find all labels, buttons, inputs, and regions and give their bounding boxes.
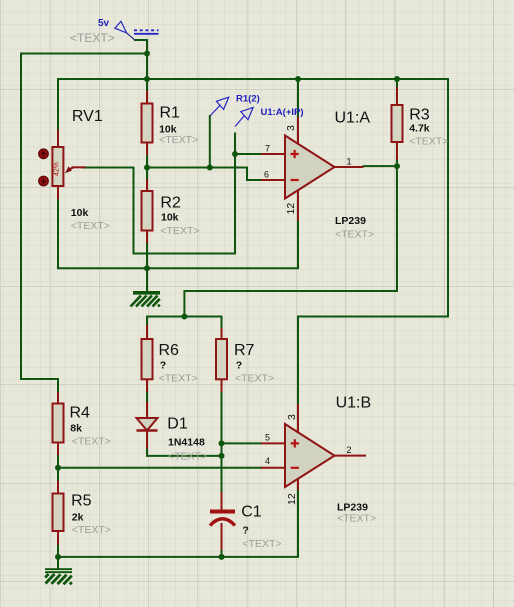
capacitor C1 [210, 492, 282, 550]
node junction: V+ rail / U1:A pin3 [295, 76, 301, 82]
ground (lower, below R5) [45, 568, 72, 584]
svg-text:3: 3 [286, 414, 298, 420]
svg-text:R1(2): R1(2) [236, 94, 260, 105]
svg-text:R7: R7 [234, 342, 255, 359]
svg-text:R4: R4 [70, 405, 91, 422]
svg-text:?: ? [242, 525, 248, 537]
wire: R3 node down-left to R6/R7 bus [184, 166, 397, 316]
svg-text:<TEXT>: <TEXT> [242, 538, 281, 550]
wire: R1(2) stub [209, 116, 211, 168]
resistor R2 [142, 179, 200, 243]
svg-text:7: 7 [265, 144, 270, 154]
wire: upper ground bus [58, 200, 298, 269]
svg-text:8k: 8k [70, 423, 82, 435]
svg-text:4.7k: 4.7k [409, 123, 430, 135]
svg-text:<TEXT>: <TEXT> [235, 373, 274, 385]
svg-text:U1:A: U1:A [335, 110, 371, 127]
node junction: R6-R7 bus feed [181, 314, 187, 320]
svg-text:<TEXT>: <TEXT> [168, 451, 207, 463]
svg-text:5: 5 [265, 433, 270, 443]
wire: power terminal stem [135, 40, 147, 91]
svg-text:<TEXT>: <TEXT> [159, 134, 198, 146]
wire: pin7 link [235, 153, 261, 155]
svg-text:<TEXT>: <TEXT> [72, 436, 111, 448]
wire: R1/R2 node to pin6 [147, 168, 261, 181]
resistor R5 [53, 481, 111, 545]
node junction: power stem / top rail [144, 51, 150, 57]
wire: R2 bottom link [146, 243, 148, 268]
svg-text:1: 1 [347, 157, 352, 167]
wire: R3 bottom stub [396, 160, 398, 166]
svg-text:C1: C1 [241, 504, 262, 521]
svg-text:<TEXT>: <TEXT> [335, 229, 374, 241]
svg-text:2k: 2k [72, 512, 84, 524]
wire: R5 top link [57, 468, 59, 481]
wire: ground stem upper [146, 268, 148, 291]
node junction: V+ rail / R1 top [144, 76, 150, 82]
wire: R7 bottom through pin5 node down to C1 [221, 392, 223, 492]
svg-text:5v: 5v [98, 18, 110, 29]
svg-text:D1: D1 [167, 416, 188, 433]
wire: D1 cathode to node bus [147, 449, 222, 456]
svg-text:6: 6 [264, 170, 269, 180]
wire: R6 bottom to D1 anode [146, 392, 148, 402]
wire: branch to R4 top [21, 379, 58, 392]
node junction: ground bus / R2 bottom [144, 265, 150, 271]
node junction: R5 bottom / ground bus [55, 554, 61, 560]
wire: R3 top stub [396, 79, 398, 87]
resistor R7 [216, 328, 274, 392]
resistor R3 [392, 87, 449, 160]
diode D1 [137, 402, 208, 463]
wire: RV1 top feed [57, 79, 59, 130]
node junction: R7 / pin5 [219, 440, 225, 446]
svg-text:42%: 42% [54, 162, 61, 176]
svg-text:R5: R5 [71, 493, 92, 510]
wire: R5 bottom link [57, 545, 59, 557]
svg-text:10k: 10k [161, 211, 179, 223]
svg-text:?: ? [160, 360, 166, 372]
svg-text:12: 12 [286, 493, 298, 505]
svg-text:LP239: LP239 [335, 215, 366, 227]
wire: right rail down and over to U1:B pin3 column [298, 79, 448, 404]
svg-text:<TEXT>: <TEXT> [70, 31, 115, 45]
node junction: U1:A output / R3 bottom [394, 163, 400, 169]
svg-text:R1: R1 [160, 105, 181, 122]
op-amp U1:B [261, 395, 376, 525]
svg-text:<TEXT>: <TEXT> [160, 225, 199, 237]
svg-text:RV1: RV1 [72, 108, 103, 125]
svg-text:4: 4 [265, 456, 270, 466]
wire: R6/R7 top bus [147, 317, 222, 329]
node junction: R1-R2 midpoint [144, 165, 150, 171]
node junction: C1 bottom / ground bus [219, 554, 225, 560]
wire: RV1 wiper run to U1:A +input [82, 134, 235, 254]
wire: U1:A pin3 power drop [297, 79, 299, 117]
resistor R4 [53, 392, 111, 455]
svg-text:<TEXT>: <TEXT> [71, 220, 110, 232]
svg-text:?: ? [236, 360, 242, 372]
svg-text:U1:B: U1:B [336, 395, 372, 412]
node junction: R4-R5 / pin4 [55, 465, 61, 471]
wire: V+ rail y=79 [58, 78, 448, 80]
wire: left rail x=21 down to R4 branch [20, 54, 22, 380]
svg-text:2: 2 [347, 445, 352, 455]
node junction: U1:A +input [232, 151, 238, 157]
svg-text:<TEXT>: <TEXT> [159, 373, 198, 385]
wire: U1:A output to R3 node [364, 165, 398, 167]
op-amp U1:A [261, 110, 374, 241]
node junction: D1 cathode bus [219, 453, 225, 459]
blue pointer label R1(2) [210, 94, 259, 116]
wire: bottom ground bus to U1:B pin12 [58, 490, 298, 557]
wire: pin5 link [222, 442, 262, 444]
svg-text:3: 3 [285, 125, 297, 131]
svg-text:R3: R3 [409, 107, 430, 124]
svg-text:R2: R2 [160, 195, 181, 212]
svg-text:10k: 10k [71, 207, 89, 219]
svg-text:1N4148: 1N4148 [168, 437, 205, 449]
wire: R2 top lead link [146, 168, 148, 180]
wire: C1 bottom link [221, 550, 223, 557]
wire: top rail y=53.5 from left rail to power stem [21, 53, 147, 55]
ground (upper, below R2) [131, 291, 161, 307]
svg-text:12: 12 [285, 203, 297, 215]
svg-text:<TEXT>: <TEXT> [337, 513, 376, 525]
svg-text:<TEXT>: <TEXT> [409, 136, 448, 148]
wire: ground stem lower [57, 557, 59, 568]
svg-text:R6: R6 [159, 342, 180, 359]
wire: C1 top link [221, 456, 223, 492]
wire: R4/R5 node to pin4 [58, 455, 261, 468]
node junction: R1(2) stub [207, 165, 213, 171]
blue pointer label U1:A(+IP) [235, 107, 304, 127]
node junction: V+ rail / R3 top [394, 76, 400, 82]
svg-text:<TEXT>: <TEXT> [72, 524, 111, 536]
resistor R6 [142, 325, 198, 392]
resistor R1 [142, 91, 199, 168]
power terminal 5v [70, 18, 159, 45]
potentiometer RV1 [39, 108, 110, 232]
svg-text:U1:A(+IP): U1:A(+IP) [261, 107, 304, 118]
